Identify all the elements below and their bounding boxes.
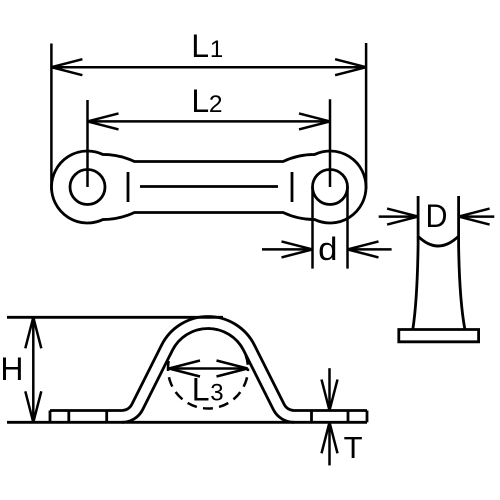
svg-text:D: D bbox=[426, 198, 448, 234]
svg-text:H: H bbox=[0, 351, 23, 387]
svg-text:L: L bbox=[191, 83, 209, 119]
svg-text:1: 1 bbox=[210, 36, 223, 63]
svg-text:L: L bbox=[192, 371, 210, 407]
svg-text:d: d bbox=[318, 231, 337, 267]
svg-text:2: 2 bbox=[209, 91, 223, 118]
svg-text:3: 3 bbox=[210, 380, 223, 407]
svg-text:T: T bbox=[344, 430, 363, 465]
svg-text:L: L bbox=[191, 28, 209, 64]
